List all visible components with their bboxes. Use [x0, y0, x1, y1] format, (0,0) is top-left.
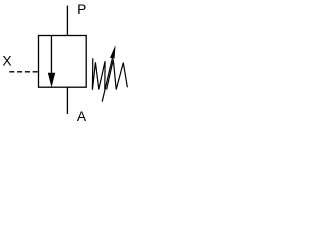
svg-text:P: P: [77, 2, 86, 17]
svg-text:A: A: [77, 109, 87, 124]
svg-text:X: X: [2, 54, 11, 69]
